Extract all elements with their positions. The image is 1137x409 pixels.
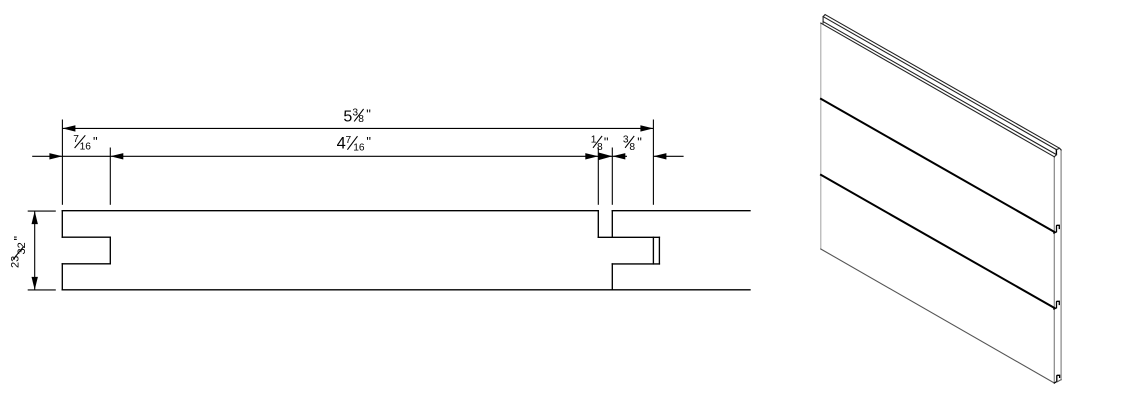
23/32 top arrow xyxy=(32,211,38,224)
svg-text:7: 7 xyxy=(346,135,352,146)
far edge bottom hook xyxy=(1057,380,1061,382)
face top edge L4 xyxy=(821,23,1055,157)
svg-text:8: 8 xyxy=(597,142,603,153)
groove bottom edge (adjacent board) xyxy=(658,237,660,264)
tongue far ridge L1 xyxy=(825,15,1060,149)
tongue right end face xyxy=(1055,150,1057,155)
arrowheads xyxy=(32,125,667,290)
5-3/8 right arrow xyxy=(640,125,653,131)
svg-text:": " xyxy=(604,134,609,149)
svg-text:23: 23 xyxy=(10,256,22,268)
5-3/8 left arrow xyxy=(62,125,75,131)
5-3/8 dimension line xyxy=(62,127,653,129)
tongue top xyxy=(598,236,659,238)
bottom shoulder xyxy=(611,264,613,290)
label 3/8" xyxy=(623,134,642,153)
svg-text:16: 16 xyxy=(80,142,92,153)
tongue tip xyxy=(652,237,654,264)
dimension lines xyxy=(28,120,684,290)
panel left edge xyxy=(820,23,822,249)
adjacent board top edge xyxy=(612,210,750,212)
board top edge xyxy=(62,210,598,212)
left edge upper xyxy=(61,211,63,238)
23/32 bottom tick xyxy=(28,289,56,291)
groove bottom xyxy=(62,263,110,265)
lower dimension line right tail xyxy=(653,155,683,157)
svg-text:32: 32 xyxy=(16,242,28,254)
right far vertical edge xyxy=(1060,150,1062,380)
right top shoulder xyxy=(597,211,599,238)
shoulder right end connector xyxy=(1054,155,1056,157)
7/16 outside-left arrow xyxy=(49,153,62,159)
svg-text:": " xyxy=(11,236,26,241)
3/8 outside-left arrow (in 1/8 gap) xyxy=(599,153,613,161)
joint line 1 xyxy=(821,99,1054,232)
svg-text:": " xyxy=(366,107,371,122)
lower dimension line left part xyxy=(32,155,627,157)
bottom edge (continuous) xyxy=(62,289,750,291)
groove right wall xyxy=(109,237,111,264)
svg-text:": " xyxy=(93,134,98,149)
bottom end-face notch xyxy=(1054,375,1059,383)
svg-text:5: 5 xyxy=(343,109,352,126)
shoulder far ridge L3 xyxy=(823,22,1056,155)
label 23/32" rotated xyxy=(10,236,28,269)
23/32 bottom arrow xyxy=(32,277,38,290)
right near vertical edge xyxy=(1053,157,1055,383)
svg-text:8: 8 xyxy=(629,142,635,153)
svg-text:4: 4 xyxy=(337,135,346,153)
joint 1 end-face notch xyxy=(1054,225,1059,233)
23/32 top tick xyxy=(28,210,56,212)
4-7/16 right arrow xyxy=(585,153,598,159)
tongue near ridge L2 xyxy=(823,17,1056,150)
left edge lower xyxy=(61,264,63,290)
svg-text:": " xyxy=(637,134,642,149)
svg-text:": " xyxy=(366,134,371,149)
tongue left end face xyxy=(823,15,825,24)
label 7/16" xyxy=(73,134,98,153)
extension lines xyxy=(61,120,63,205)
1/8 outside-right arrow xyxy=(612,153,625,159)
panel bottom edge xyxy=(821,249,1055,383)
tongue right end top xyxy=(1056,148,1061,150)
joint line 2 xyxy=(821,175,1054,308)
label 1/8" xyxy=(591,134,609,153)
label 5 3/8" xyxy=(343,107,371,126)
23/32 dim line xyxy=(34,211,36,290)
3/8 outside-right arrow xyxy=(653,153,666,159)
tongue bottom xyxy=(612,263,659,265)
4-7/16 left arrow xyxy=(110,153,123,159)
adjacent board left edge xyxy=(611,211,613,238)
groove top xyxy=(62,236,110,238)
label 4 7/16" xyxy=(337,134,372,154)
svg-text:8: 8 xyxy=(358,114,364,125)
joint 2 end-face notch xyxy=(1054,301,1059,309)
svg-text:16: 16 xyxy=(353,143,365,154)
